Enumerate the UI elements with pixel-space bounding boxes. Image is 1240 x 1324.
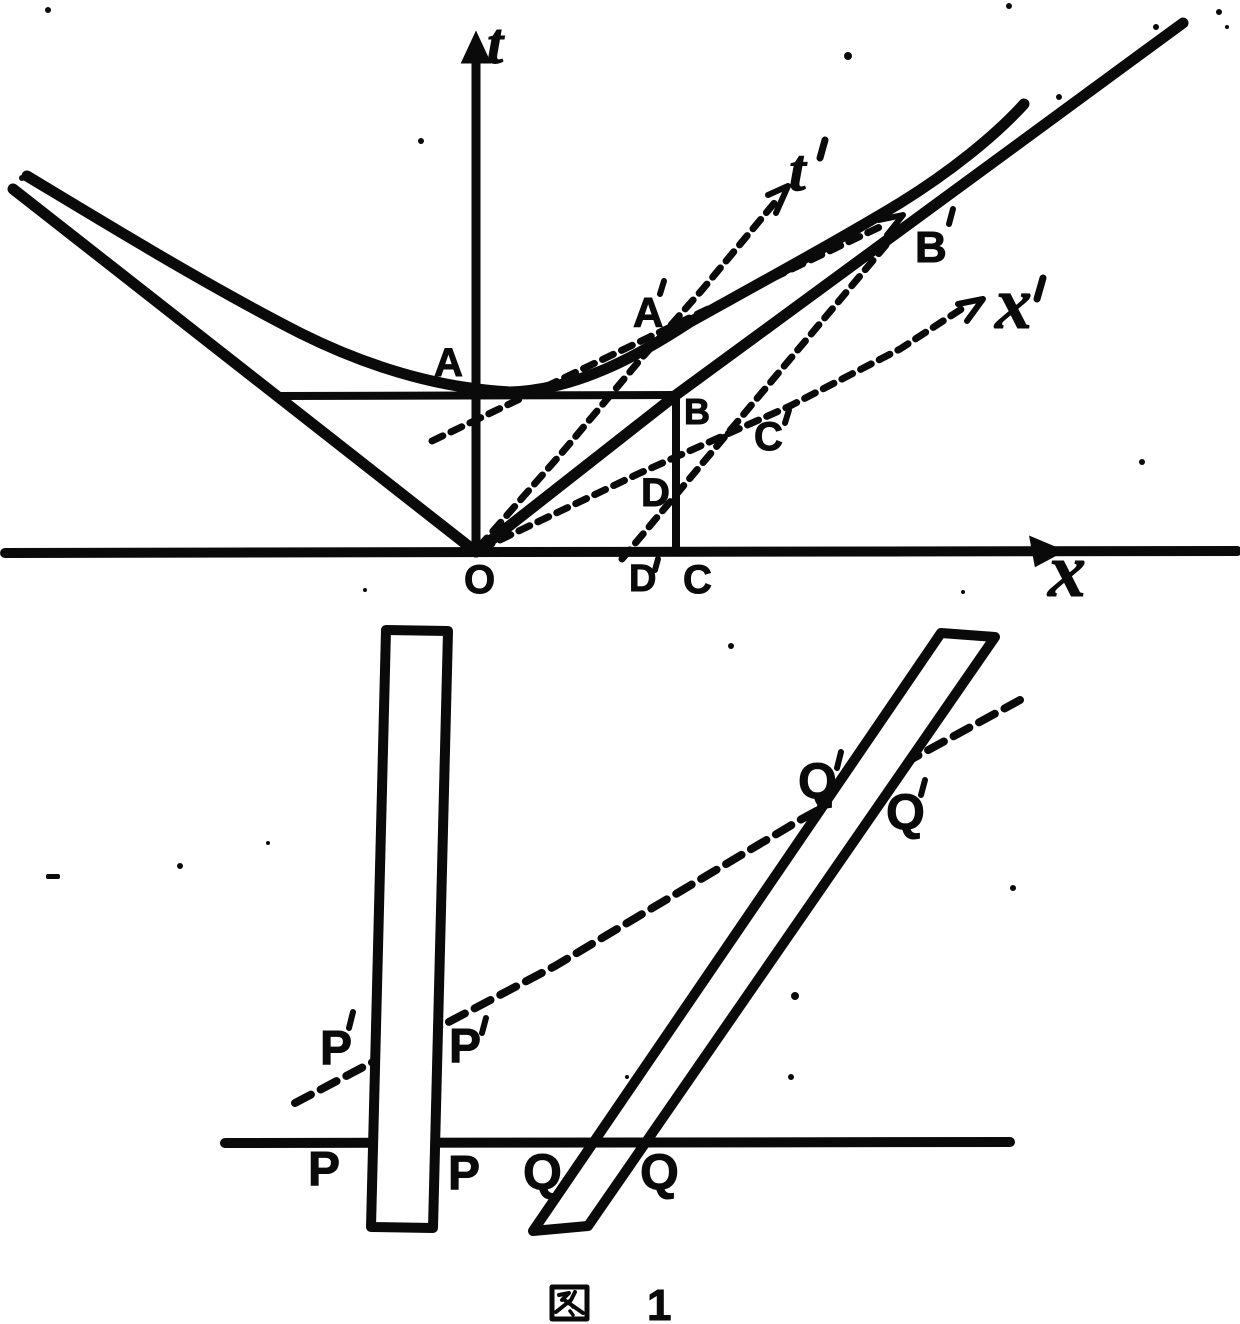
svg-text:C: C — [754, 415, 783, 459]
x axis arrowhead — [1031, 538, 1062, 565]
line A'B' arrowhead — [879, 215, 903, 235]
rest rod (vertical) — [371, 630, 448, 1228]
svg-text:C: C — [683, 558, 712, 602]
svg-text:t: t — [487, 11, 505, 76]
svg-text:1: 1 — [647, 1281, 671, 1324]
svg-text:P: P — [308, 1143, 340, 1196]
line A'B' dashed parallel to x' — [432, 224, 886, 441]
segment B C vertical — [672, 395, 680, 550]
svg-text:Q: Q — [523, 1144, 562, 1200]
x' axis dashed — [481, 308, 963, 549]
svg-text:P: P — [449, 1020, 481, 1073]
svg-text:B: B — [915, 223, 947, 272]
t axis arrowhead — [463, 34, 489, 62]
line D'C'B' dashed parallel to t' — [622, 245, 886, 559]
x axis — [5, 551, 1237, 553]
svg-text:D: D — [629, 558, 656, 600]
svg-text:O: O — [464, 558, 495, 602]
caption glyph 图 — [552, 1287, 587, 1319]
svg-text:t: t — [789, 137, 808, 203]
segment A B horizontal — [276, 395, 676, 396]
hyperbola — [27, 104, 1024, 392]
light-cone line right through B — [476, 23, 1183, 552]
svg-text:P: P — [448, 1147, 480, 1200]
stray ink specks — [19, 3, 1229, 1080]
t' axis dashed — [479, 201, 776, 547]
baseline PQ — [225, 1142, 1010, 1143]
t axis — [472, 42, 481, 553]
svg-text:x: x — [994, 263, 1032, 345]
svg-text:B: B — [684, 391, 710, 432]
svg-text:Q: Q — [798, 753, 837, 809]
x' axis arrowhead — [958, 299, 983, 321]
svg-text:Q: Q — [640, 1144, 679, 1200]
svg-text:x: x — [1047, 529, 1086, 613]
dashed line P'Q' — [295, 700, 1020, 1103]
light-cone line left — [13, 189, 476, 552]
svg-text:D: D — [641, 471, 670, 515]
svg-text:A: A — [434, 341, 463, 385]
moving rod (slanted) — [533, 633, 995, 1231]
t' axis arrowhead — [768, 186, 788, 213]
